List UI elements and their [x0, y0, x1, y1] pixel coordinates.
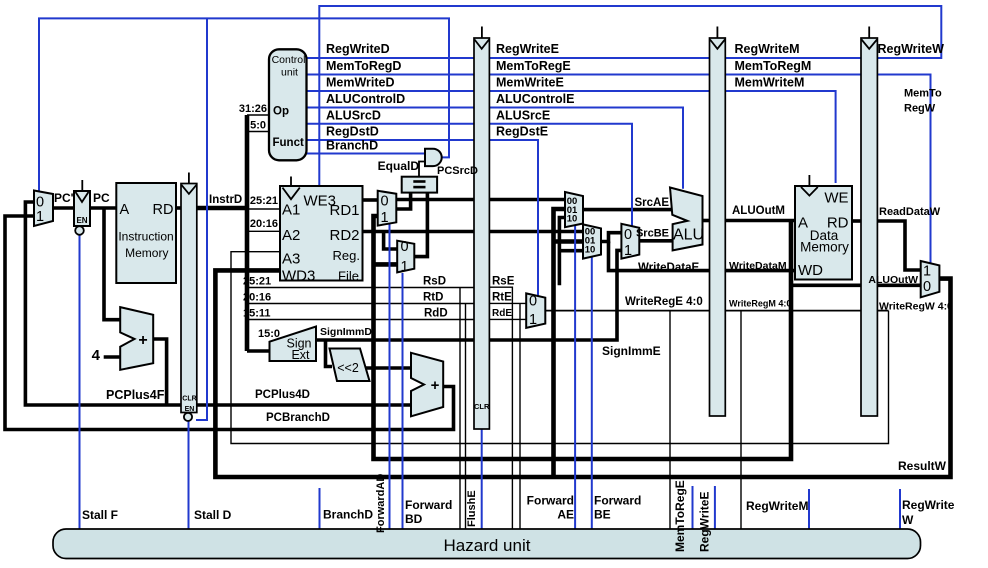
svg-text:25:21: 25:21 [250, 195, 278, 207]
svg-text:0: 0 [529, 294, 537, 310]
svg-text:RD1: RD1 [329, 202, 359, 219]
svg-text:20:16: 20:16 [243, 292, 271, 304]
svg-text:File: File [338, 269, 359, 284]
svg-text:BD: BD [405, 512, 423, 526]
svg-text:ALUOutW: ALUOutW [868, 274, 918, 286]
svg-text:WriteRegM 4:0: WriteRegM 4:0 [729, 299, 791, 309]
svg-text:15:0: 15:0 [258, 328, 280, 340]
svg-text:Memory: Memory [800, 240, 849, 255]
svg-text:FlushE: FlushE [466, 490, 478, 527]
svg-text:RD: RD [827, 215, 849, 232]
svg-text:MemWriteM: MemWriteM [735, 76, 805, 90]
svg-text:A1: A1 [282, 202, 300, 219]
svg-text:BranchD: BranchD [326, 139, 378, 153]
svg-text:RegWriteE: RegWriteE [496, 42, 559, 56]
svg-text:Ext: Ext [291, 348, 310, 362]
svg-text:RegWriteM: RegWriteM [746, 499, 808, 513]
svg-text:PCPlus4D: PCPlus4D [255, 389, 310, 401]
svg-text:BE: BE [594, 508, 611, 522]
svg-text:A3: A3 [282, 251, 300, 268]
svg-text:15:11: 15:11 [243, 308, 271, 320]
svg-text:BranchD: BranchD [323, 508, 373, 522]
svg-text:31:26: 31:26 [239, 103, 267, 115]
svg-text:0: 0 [923, 279, 931, 295]
svg-text:RsD: RsD [423, 276, 446, 288]
svg-text:20:16: 20:16 [250, 218, 278, 230]
svg-text:Op: Op [273, 106, 289, 118]
svg-text:Control: Control [272, 54, 306, 66]
svg-text:PCPlus4F: PCPlus4F [106, 388, 165, 402]
svg-text:RtD: RtD [423, 292, 443, 304]
svg-text:WriteRegW 4:0: WriteRegW 4:0 [879, 301, 953, 313]
svg-text:ResultW: ResultW [898, 459, 947, 473]
svg-text:WriteDataM: WriteDataM [729, 260, 787, 272]
svg-text:RdD: RdD [424, 308, 448, 320]
svg-text:1: 1 [529, 312, 537, 328]
svg-text:MemWriteD: MemWriteD [326, 76, 395, 90]
svg-text:MemToRegD: MemToRegD [326, 59, 401, 73]
svg-text:1: 1 [624, 243, 632, 259]
svg-text:1: 1 [36, 209, 44, 225]
svg-text:Hazard unit: Hazard unit [444, 536, 531, 555]
svg-text:0: 0 [380, 194, 388, 210]
svg-text:CLR: CLR [474, 402, 490, 411]
svg-text:CLR: CLR [182, 396, 196, 403]
svg-text:EqualD: EqualD [378, 159, 420, 173]
svg-text:ALUControlD: ALUControlD [326, 92, 405, 106]
svg-text:WE: WE [824, 190, 848, 207]
svg-text:RdE: RdE [492, 308, 512, 319]
svg-text:W: W [902, 513, 914, 527]
svg-text:10: 10 [567, 213, 578, 224]
svg-text:Stall F: Stall F [82, 508, 118, 522]
svg-text:RegWrite: RegWrite [902, 498, 955, 512]
svg-text:Reg.: Reg. [333, 248, 360, 263]
svg-text:Memory: Memory [125, 246, 168, 260]
svg-text:AE: AE [557, 508, 574, 522]
svg-text:MemToRegE: MemToRegE [673, 480, 687, 552]
svg-text:EN: EN [76, 216, 87, 225]
svg-text:0: 0 [624, 227, 632, 243]
svg-text:WD: WD [798, 262, 823, 279]
svg-text:RsE: RsE [492, 276, 515, 288]
svg-text:RegDstE: RegDstE [496, 125, 548, 139]
svg-text:1: 1 [400, 259, 408, 275]
svg-text:ALUControlE: ALUControlE [496, 92, 574, 106]
svg-text:5:0: 5:0 [250, 120, 266, 132]
svg-text:WD3: WD3 [282, 268, 315, 285]
svg-text:WriteDataE: WriteDataE [638, 262, 699, 274]
svg-text:ForwardAD: ForwardAD [375, 474, 387, 533]
svg-text:Funct: Funct [273, 137, 304, 149]
svg-text:MemToRegE: MemToRegE [496, 59, 571, 73]
svg-text:EN: EN [185, 406, 195, 413]
svg-text:ALU: ALU [673, 227, 704, 244]
svg-text:A: A [120, 202, 130, 218]
svg-text:RegWriteW: RegWriteW [878, 42, 945, 56]
svg-text:RegWriteD: RegWriteD [326, 42, 390, 56]
svg-text:RegW: RegW [904, 103, 936, 115]
svg-text:Stall D: Stall D [194, 508, 232, 522]
svg-text:SrcBE: SrcBE [636, 228, 669, 240]
svg-text:MemWriteE: MemWriteE [496, 76, 564, 90]
svg-text:ALUSrcD: ALUSrcD [326, 109, 381, 123]
svg-text:25:21: 25:21 [243, 276, 271, 288]
svg-text:<<2: <<2 [337, 361, 359, 375]
svg-text:RegWriteE: RegWriteE [698, 492, 712, 552]
svg-text:unit: unit [281, 66, 298, 78]
svg-text:SignImmD: SignImmD [320, 326, 372, 338]
svg-text:RD2: RD2 [329, 227, 359, 244]
svg-text:RegWriteM: RegWriteM [735, 42, 800, 56]
svg-text:SrcAE: SrcAE [634, 197, 669, 209]
svg-text:A2: A2 [282, 227, 300, 244]
svg-text:1: 1 [923, 264, 931, 280]
svg-text:Forward: Forward [405, 498, 452, 512]
svg-text:1: 1 [380, 210, 388, 226]
svg-text:+: + [138, 332, 147, 349]
svg-text:PCSrcD: PCSrcD [437, 165, 478, 177]
svg-text:PCBranchD: PCBranchD [266, 412, 330, 424]
svg-text:10: 10 [585, 245, 596, 256]
svg-text:PC: PC [93, 191, 110, 205]
svg-text:ALUSrcE: ALUSrcE [496, 109, 550, 123]
svg-text:SignImmE: SignImmE [602, 344, 661, 358]
svg-text:MemToRegM: MemToRegM [735, 59, 812, 73]
svg-text:WriteRegE 4:0: WriteRegE 4:0 [625, 296, 703, 308]
svg-text:0: 0 [400, 239, 408, 255]
svg-text:RtE: RtE [492, 292, 512, 304]
svg-text:RegDstD: RegDstD [326, 125, 379, 139]
svg-text:PC': PC' [54, 191, 74, 205]
svg-text:ReadDataW: ReadDataW [879, 206, 941, 218]
svg-text:4: 4 [92, 347, 101, 364]
svg-text:ALUOutM: ALUOutM [732, 205, 785, 217]
svg-text:+: + [431, 377, 440, 394]
svg-text:MemTo: MemTo [904, 88, 942, 100]
svg-text:Instruction: Instruction [118, 230, 173, 244]
svg-text:Forward: Forward [594, 494, 641, 508]
svg-text:InstrD: InstrD [209, 194, 242, 206]
svg-text:RD: RD [153, 202, 174, 218]
svg-text:A: A [798, 215, 808, 232]
svg-text:Forward: Forward [527, 494, 574, 508]
